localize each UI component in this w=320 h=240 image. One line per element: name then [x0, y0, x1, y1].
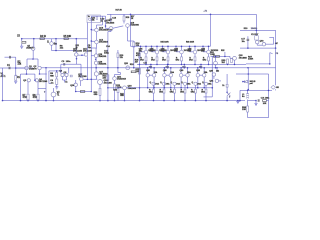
wire	[230, 57, 233, 59]
junction	[216, 67, 218, 69]
junction	[107, 87, 109, 89]
wire	[114, 75, 116, 77]
wire	[167, 54, 169, 57]
svg-text:0R2: 0R2	[151, 59, 155, 61]
transistor Q2	[38, 66, 41, 69]
svg-text:2SA: 2SA	[187, 83, 191, 86]
wire	[110, 14, 112, 22]
junction	[189, 46, 191, 48]
wire	[151, 46, 153, 52]
junction	[39, 73, 41, 75]
wire kink	[270, 53, 273, 54]
transistor Q1	[25, 66, 28, 69]
junction	[151, 46, 153, 48]
wire	[66, 77, 68, 80]
wire input	[0, 67, 33, 69]
transistor Q23 driver	[123, 86, 127, 90]
svg-text:Q: Q	[150, 82, 152, 84]
wire	[174, 85, 176, 89]
wire	[227, 63, 229, 65]
transistor Q12 in box	[89, 18, 91, 20]
transistor Q9	[65, 73, 68, 76]
wire	[95, 58, 97, 62]
junction	[194, 64, 196, 66]
svg-text:0: 0	[229, 97, 231, 99]
wire	[156, 46, 158, 50]
wire	[99, 95, 101, 100]
wire	[226, 87, 228, 92]
resistor R31	[214, 56, 220, 58]
ground	[236, 101, 239, 103]
wire	[86, 56, 88, 79]
wire	[203, 68, 205, 74]
svg-text:71: 71	[57, 94, 60, 96]
resistor RE1b bank3	[153, 89, 155, 93]
resistor R20	[114, 84, 116, 90]
wire	[140, 46, 142, 52]
wire	[239, 90, 241, 100]
inductor L1	[246, 93, 248, 98]
ground	[254, 104, 257, 106]
transistor Q22	[80, 77, 84, 81]
wire	[167, 61, 169, 65]
wire	[56, 84, 58, 86]
resistor RE6a bank1	[208, 57, 210, 61]
svg-text:1N4004: 1N4004	[251, 28, 257, 30]
junction	[32, 58, 34, 60]
wire	[275, 89, 277, 90]
wire V- bottom rail	[3, 100, 246, 102]
bias network box	[87, 15, 100, 23]
junction	[87, 79, 89, 81]
source V2	[51, 92, 56, 97]
resistor RE3b bank3	[174, 89, 176, 93]
svg-text:10k: 10k	[92, 19, 95, 21]
svg-text:2SA: 2SA	[197, 83, 201, 86]
wire	[37, 59, 39, 66]
wire	[34, 74, 36, 80]
junction	[226, 100, 228, 102]
wire	[211, 55, 231, 57]
resistor R33	[227, 59, 229, 64]
wire	[152, 51, 156, 53]
junction	[275, 47, 277, 49]
svg-text:22k: 22k	[120, 57, 123, 59]
wire	[187, 68, 189, 74]
wire	[145, 54, 147, 57]
svg-text:Q33: Q33	[209, 71, 213, 73]
wire	[26, 59, 28, 66]
wire	[202, 46, 204, 52]
transistor Q16	[94, 61, 98, 65]
junction	[139, 87, 141, 89]
svg-text:1k: 1k	[76, 47, 78, 49]
transistor Q15	[94, 54, 98, 58]
junction	[150, 67, 152, 69]
svg-text:2SA1381: 2SA1381	[98, 55, 106, 58]
junction	[247, 90, 249, 92]
transistor Q21	[113, 77, 117, 81]
wire	[147, 68, 149, 74]
junction	[164, 67, 166, 69]
junction	[167, 67, 169, 69]
junction	[197, 87, 199, 89]
svg-text:2SC3503: 2SC3503	[99, 41, 109, 43]
wire	[107, 32, 109, 101]
wire	[21, 73, 35, 75]
junction	[140, 46, 142, 48]
svg-text:p=8: p=8	[250, 83, 253, 85]
svg-text:2SC2240: 2SC2240	[78, 76, 87, 78]
wire	[2, 68, 4, 101]
svg-text:0R1: 0R1	[166, 67, 169, 69]
transistor Q8	[61, 73, 64, 76]
wire cdom net	[61, 63, 81, 65]
junction	[163, 100, 165, 102]
svg-text:R15: R15	[126, 17, 130, 19]
capacitor C21	[258, 99, 259, 102]
wire	[99, 85, 101, 89]
resistor R27	[131, 71, 136, 73]
junction	[248, 73, 250, 75]
svg-text:2SC3503: 2SC3503	[99, 29, 109, 31]
wire	[156, 54, 158, 57]
wire	[269, 36, 273, 38]
wire	[133, 47, 135, 68]
resistor R19	[117, 53, 119, 58]
junction	[33, 38, 35, 40]
svg-text:Q34: Q34	[210, 80, 215, 82]
junction	[91, 40, 93, 42]
ground	[20, 46, 23, 48]
transistor QN6 bank1	[207, 50, 211, 54]
junction	[170, 67, 172, 69]
crossing X symbol	[227, 93, 231, 97]
transistor Q33	[212, 73, 215, 76]
relay K1 box	[255, 36, 259, 40]
wire	[205, 85, 207, 89]
svg-text:0R2: 0R2	[189, 59, 193, 61]
wire	[117, 58, 119, 73]
svg-text:15p: 15p	[88, 47, 91, 49]
svg-text:2SC3503: 2SC3503	[106, 22, 114, 24]
junction	[147, 87, 149, 89]
capacitor C4	[56, 79, 58, 84]
junction	[34, 79, 36, 81]
wire	[115, 74, 121, 76]
junction	[242, 81, 244, 83]
svg-text:R32: R32	[221, 50, 224, 52]
svg-text:2SA: 2SA	[208, 83, 212, 86]
junction	[215, 56, 217, 58]
junction	[45, 67, 47, 69]
resistor R39	[263, 100, 267, 102]
resistor R5	[64, 38, 68, 40]
transistor QP1b bank2	[152, 74, 155, 77]
wire	[194, 54, 196, 57]
wire	[226, 96, 228, 100]
junction	[76, 38, 78, 40]
wire	[123, 14, 125, 16]
wire	[257, 44, 262, 46]
capacitor C1	[9, 67, 10, 70]
wire	[37, 82, 39, 94]
wire	[205, 93, 207, 101]
junction	[181, 64, 183, 66]
wire	[248, 100, 252, 102]
junction	[224, 56, 226, 58]
transistor Q11	[84, 53, 87, 56]
wire base Q14	[91, 40, 94, 42]
svg-text:2SC2240: 2SC2240	[39, 81, 48, 83]
transistor QP2b bank2	[169, 74, 172, 77]
wire	[170, 68, 172, 74]
wire	[86, 23, 88, 53]
svg-text:R45 100R: R45 100R	[161, 42, 170, 44]
wire	[195, 93, 197, 101]
wire	[203, 51, 207, 53]
wire	[80, 81, 82, 86]
wire feedback down	[45, 68, 47, 101]
transistor QP4c bank3	[183, 82, 186, 85]
transistor Q19	[126, 24, 130, 28]
svg-text:Q: Q	[192, 82, 194, 84]
wire	[130, 24, 132, 47]
wire	[113, 26, 124, 28]
transistor Q32	[233, 56, 237, 60]
svg-text:Q40: Q40	[163, 70, 167, 72]
svg-text:2SA: 2SA	[176, 83, 180, 86]
ground	[14, 81, 17, 83]
junction	[75, 91, 77, 93]
junction	[139, 64, 141, 66]
wire	[211, 56, 213, 97]
junction	[200, 64, 202, 66]
wire	[213, 76, 215, 79]
wire	[273, 37, 275, 44]
junction	[91, 29, 93, 31]
wire	[181, 61, 183, 65]
wire	[167, 64, 169, 67]
wire	[203, 77, 205, 88]
wire	[15, 62, 17, 68]
svg-text:Q: Q	[181, 82, 183, 84]
junction	[268, 90, 270, 92]
svg-text:0R2: 0R2	[191, 92, 195, 94]
resistor RE5a bank1	[194, 57, 196, 61]
svg-text:2SA: 2SA	[187, 71, 191, 74]
wire	[27, 82, 29, 94]
wire	[117, 50, 119, 53]
wire	[224, 52, 226, 56]
resistor R13	[99, 88, 101, 95]
transistor Q30	[256, 40, 259, 43]
wire	[62, 77, 64, 80]
junction	[239, 100, 241, 102]
wire	[219, 80, 221, 82]
junction	[156, 46, 158, 48]
wire	[60, 64, 62, 71]
junction	[247, 67, 249, 69]
junction	[227, 64, 229, 66]
wire	[114, 90, 116, 101]
junction	[2, 100, 4, 102]
junction	[133, 67, 135, 69]
resistor RE1a bank1	[145, 57, 147, 61]
junction	[55, 50, 57, 52]
junction	[181, 46, 183, 48]
wire	[105, 26, 107, 28]
wire	[147, 77, 149, 88]
svg-text:1n: 1n	[88, 16, 90, 18]
wire	[120, 73, 122, 75]
wire	[40, 73, 47, 75]
transistor QP2a bank2	[163, 74, 166, 77]
wire	[38, 88, 46, 90]
junction	[91, 91, 93, 93]
wire	[91, 55, 94, 57]
diode D2	[244, 80, 247, 83]
svg-text:0R2: 0R2	[180, 92, 184, 94]
wire	[95, 65, 97, 72]
wire	[96, 25, 98, 28]
wire rail D left	[108, 87, 123, 89]
resistor RE4b bank3	[184, 89, 186, 93]
svg-text:100p: 100p	[104, 53, 110, 55]
svg-text:2SA: 2SA	[170, 71, 174, 74]
svg-text:AC 1: AC 1	[1, 75, 7, 78]
wire	[15, 68, 17, 76]
wire	[229, 56, 231, 58]
svg-text:2SC4883: 2SC4883	[239, 57, 247, 59]
wire	[174, 93, 176, 101]
wire	[256, 44, 258, 45]
transistor QP3a bank2	[179, 74, 182, 77]
wire	[114, 80, 116, 84]
wire	[266, 43, 274, 45]
wire	[83, 78, 97, 80]
svg-text:22k: 22k	[18, 64, 23, 66]
capacitor C10	[104, 20, 107, 21]
svg-text:R1: R1	[17, 77, 21, 79]
wire	[76, 91, 92, 93]
wire	[236, 73, 269, 75]
wire	[80, 64, 82, 77]
svg-text:2SA1381: 2SA1381	[98, 62, 106, 65]
svg-text:0R2: 0R2	[149, 92, 153, 94]
junction	[237, 100, 239, 102]
wire	[255, 101, 257, 104]
wire	[215, 65, 217, 68]
svg-text:C3: C3	[62, 61, 66, 63]
junction	[215, 67, 217, 69]
wire	[187, 77, 189, 88]
transistor QP5c bank3	[194, 82, 197, 85]
transistor QD2 driver	[98, 80, 103, 85]
wire	[199, 74, 202, 76]
transistor Q18	[109, 27, 113, 31]
wire	[110, 30, 112, 31]
svg-text:Q20: Q20	[124, 63, 129, 65]
wire	[166, 74, 169, 76]
wire	[75, 80, 77, 83]
wire	[150, 64, 152, 67]
wire	[133, 41, 135, 42]
junction	[95, 67, 97, 69]
wire	[180, 77, 182, 88]
junction	[117, 67, 119, 69]
junction	[53, 100, 55, 102]
wire	[189, 46, 191, 52]
junction	[91, 79, 93, 81]
svg-text:C14: C14	[106, 46, 111, 48]
junction	[99, 100, 101, 102]
wire	[163, 93, 165, 101]
wire	[255, 30, 257, 35]
junction	[26, 73, 28, 75]
wire	[181, 46, 183, 50]
svg-text:1m: 1m	[51, 82, 54, 84]
wire	[90, 48, 92, 92]
wire	[183, 64, 185, 67]
wire output rail B	[137, 63, 246, 65]
junction	[212, 87, 214, 89]
wire	[208, 61, 210, 65]
svg-text:0R2: 0R2	[140, 59, 144, 61]
svg-text:22k: 22k	[60, 48, 64, 50]
wire	[200, 64, 202, 67]
wire	[82, 54, 84, 56]
resistor R4	[40, 38, 44, 40]
junction	[248, 89, 250, 91]
wire	[91, 47, 96, 49]
junction	[164, 87, 166, 89]
junction	[170, 87, 172, 89]
svg-text:6u: 6u	[242, 96, 245, 98]
wire	[247, 112, 249, 118]
junction	[130, 14, 132, 16]
transistor Q35	[214, 61, 218, 65]
transistor Q24	[74, 83, 77, 86]
svg-text:C13: C13	[112, 18, 117, 20]
resistor R12c	[70, 75, 72, 77]
wire	[149, 74, 152, 76]
junction	[107, 67, 109, 69]
svg-text:100n: 100n	[66, 61, 71, 63]
junction	[153, 100, 155, 102]
resistor R3	[22, 41, 26, 43]
resistor R25	[117, 89, 119, 93]
current source I1	[50, 42, 54, 46]
wire	[181, 54, 183, 57]
resistor R38	[247, 106, 249, 112]
svg-text:2SA: 2SA	[166, 83, 170, 86]
svg-text:10R: 10R	[263, 103, 267, 105]
svg-text:Q40: Q40	[196, 70, 200, 72]
wire	[163, 85, 165, 89]
junction	[150, 64, 152, 66]
junction	[184, 67, 186, 69]
wire	[246, 63, 270, 65]
resistor R12b	[80, 91, 85, 93]
svg-text:Q: Q	[202, 82, 204, 84]
wire	[15, 57, 17, 62]
wire	[197, 68, 199, 74]
wire	[275, 48, 277, 68]
wire	[247, 100, 249, 107]
resistor R35	[226, 84, 228, 87]
wire	[53, 97, 55, 101]
